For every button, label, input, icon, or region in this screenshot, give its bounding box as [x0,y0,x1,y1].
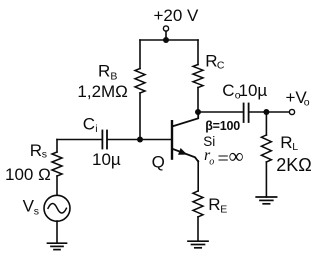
wire Rs to Vs [56,176,58,196]
wire Co to output terminal [250,111,290,113]
wire RB to base node [139,93,141,140]
svg-text:L: L [292,141,298,153]
svg-text:s: s [34,206,39,218]
svg-text:+20 V: +20 V [154,6,200,25]
label Co 10µ [222,81,267,102]
capacitor Co [244,104,249,123]
svg-text:=: = [218,148,229,170]
capacitor Ci [102,131,107,149]
wire top bus [140,39,198,41]
output terminal +Vo [289,109,294,114]
label Vs [23,197,39,218]
svg-text:C: C [83,114,95,133]
ground (source) [48,243,67,249]
svg-text:i: i [95,123,97,135]
supply terminal +20 V [163,26,168,31]
node output junction [263,109,269,115]
wire source to Ci [57,139,102,141]
node supply junction [163,37,169,43]
svg-text:Q: Q [152,153,165,172]
wire top bus to RC [197,40,199,65]
svg-text:C: C [222,81,234,100]
wire RL to ground [265,162,267,197]
wire Vs to ground [56,221,58,243]
svg-text:10µ: 10µ [239,81,268,100]
svg-text:10µ: 10µ [92,150,121,169]
ground (load) [256,197,276,204]
label Ci [83,114,98,135]
svg-text:C: C [217,59,225,71]
wire collector to Co [198,111,243,113]
wire emitter down to RE [197,161,199,191]
svg-text:∞: ∞ [229,144,244,168]
node collector junction [195,109,201,115]
wire input corner down to Rs [56,140,58,153]
label ro = ∞ [204,144,244,170]
resistor RE [193,191,203,217]
svg-text:B: B [110,70,117,82]
svg-text:o: o [209,157,214,168]
svg-text:R: R [30,141,42,160]
svg-text:o: o [304,96,310,108]
resistor Rs [52,152,62,176]
svg-text:E: E [220,204,227,216]
svg-text:β=100: β=100 [205,119,240,133]
svg-text:R: R [280,133,292,152]
label RB [98,61,117,82]
label +Vo [286,88,310,108]
label RL [280,133,298,153]
svg-text:V: V [23,197,35,216]
resistor RC [193,65,203,88]
svg-text:R: R [98,61,110,80]
svg-text:1,2MΩ: 1,2MΩ [77,82,128,101]
svg-text:s: s [42,149,47,161]
transistor Q1 [172,112,198,162]
wire Ci to base [108,139,171,141]
wire top bus to RB [139,40,141,69]
label RE [208,195,227,216]
wire RC to collector node [197,88,199,113]
svg-text:100 Ω: 100 Ω [5,165,51,184]
resistor RB [135,69,145,94]
ground (emitter) [188,241,208,248]
svg-text:R: R [208,195,220,214]
source Vs [44,195,70,221]
label Rs [30,141,47,161]
wire RE to ground [197,217,199,241]
svg-text:2KΩ: 2KΩ [276,155,311,175]
node base junction [137,137,143,143]
resistor RL [261,135,271,162]
label RC [205,51,225,71]
svg-text:R: R [205,51,217,70]
wire terminal to top bus [165,31,167,40]
wire output node to RL [265,112,267,135]
